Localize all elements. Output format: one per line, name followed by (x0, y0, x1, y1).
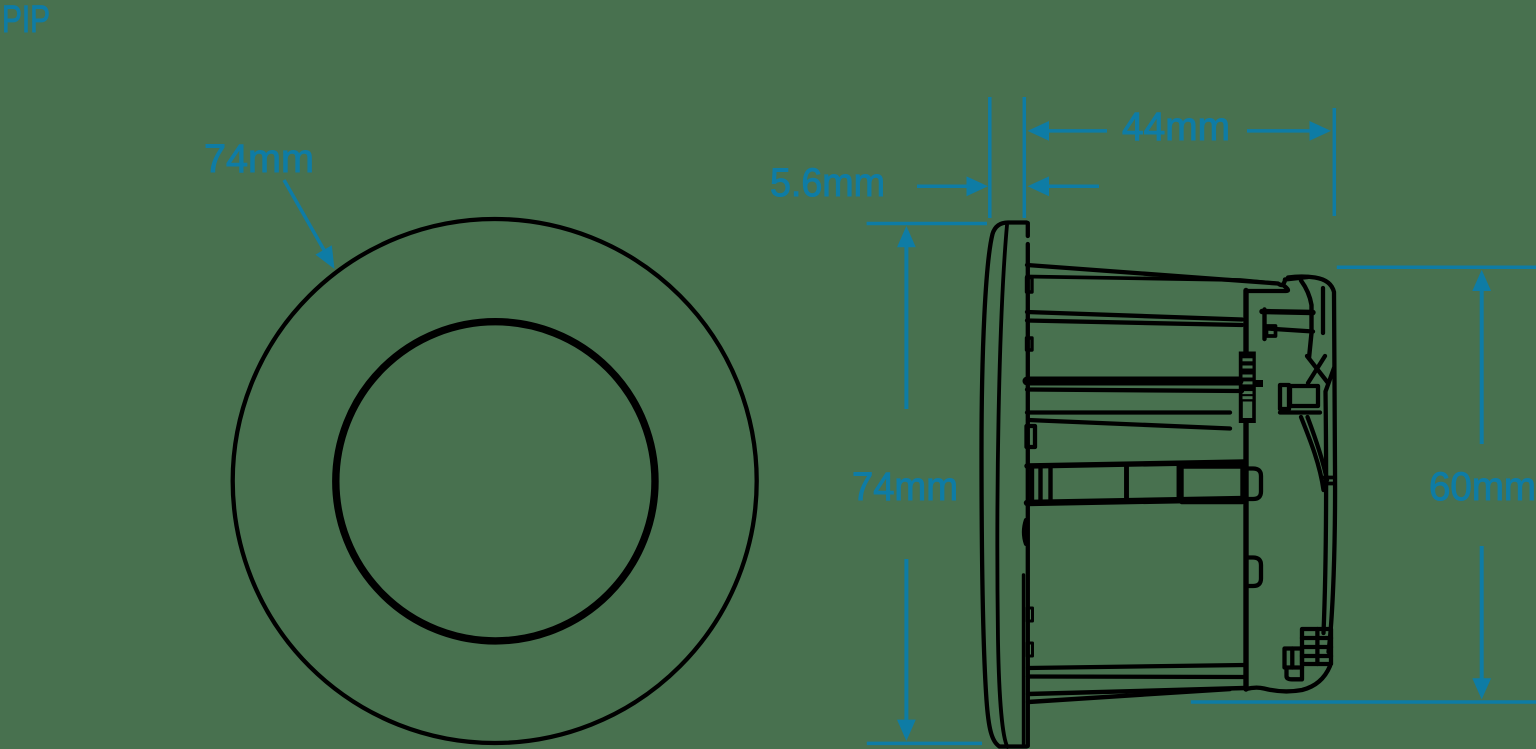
side view: small knob on front edge at 643 (1027, 643, 1033, 656)
extension line 74mm top (side) (867, 222, 987, 226)
side view: small knob on front edge at 608 (1027, 608, 1033, 621)
side view: terminal divider 1 (1124, 464, 1129, 500)
extension line 60mm top (1337, 265, 1536, 269)
side view: bezel back edge lower segment (1022, 575, 1025, 744)
leader arrow 74mm front (284, 180, 324, 250)
extension line 60mm bottom (1191, 700, 1536, 704)
side view: slant line 420-428 (1028, 420, 1230, 429)
side view: body front edge top stub (1026, 223, 1030, 236)
side view: ear flap curve (1301, 281, 1312, 359)
side view: body top edge lower (1027, 277, 1276, 284)
svg-text:74mm: 74mm (852, 465, 958, 509)
side view: clamp lower line (1280, 410, 1320, 414)
side view: basket line pair upper B (1027, 321, 1242, 326)
dimension 44mm left arrow (1048, 129, 1107, 133)
dimension 60mm vertical line upper (1480, 290, 1484, 444)
svg-text:74mm: 74mm (204, 137, 314, 181)
dimension 5.6mm right arrow pointing left (1048, 185, 1099, 189)
side view: basket line pair upper A (1027, 312, 1242, 320)
side view: bezel inner front line (997, 225, 1007, 747)
side view: bottom right bowl arc (1246, 666, 1330, 691)
side view: leg diagonal 2 (1308, 417, 1328, 480)
dimension 74mm vertical line lower (904, 559, 908, 720)
side view: clamp bottom ribbed block (1302, 629, 1331, 664)
side view: terminal slot 3 (1048, 466, 1052, 501)
extension line 44mm right (1333, 108, 1337, 216)
side view: clamp bottom hook (1287, 668, 1303, 680)
side view: bottom edge slant upper (1028, 688, 1245, 694)
side view: lower line B (1028, 674, 1245, 679)
extension line 74mm bottom (side) (867, 742, 982, 746)
side view: lower line A (1028, 665, 1245, 668)
dimension 60mm vertical line lower (1480, 546, 1484, 679)
dimension 44mm right arrow (1247, 129, 1310, 133)
side view: terminal strip top line (1027, 462, 1245, 466)
front view outer circle (233, 219, 757, 743)
svg-text:60mm: 60mm (1429, 465, 1536, 509)
side view: small box on front edge at 426 (1027, 426, 1036, 447)
side view: bezel outer contour (982, 223, 1027, 747)
side view: block right of screw (1256, 380, 1264, 387)
side view: notch line under top (1246, 285, 1288, 291)
side view: clamp block small left (1280, 385, 1289, 409)
side view: clamp bottom left box (1285, 649, 1303, 668)
side view: terminal strip bottom line (1027, 499, 1245, 503)
side view: body front edge (1026, 244, 1030, 746)
side view: inner profile upper vertical (1321, 288, 1325, 333)
side view: screw thread block (1239, 352, 1256, 424)
side view: right tab 2 (1248, 558, 1261, 587)
side view: right edge body vertical (1243, 291, 1248, 690)
side view: small knob on front edge mid (1027, 338, 1033, 350)
side view: right tab 1 (1248, 469, 1261, 500)
side view: leg diagonal 1 (1301, 417, 1324, 490)
side view: clamp X diagonal 1 (1307, 356, 1328, 383)
side view: back curve tick (1324, 478, 1335, 484)
front view inner circle (336, 322, 655, 641)
side view: clamp block (1290, 386, 1318, 406)
side view: terminal sub box (1182, 467, 1243, 503)
side view: small box under arm left end (1267, 326, 1276, 336)
side view: thick mid band (1027, 377, 1239, 386)
side view: top short line to ear (1285, 277, 1308, 280)
dimension 5.6mm left arrow pointing right (917, 185, 967, 189)
svg-text:44mm: 44mm (1122, 105, 1230, 149)
side view: outer back profile top (1288, 277, 1335, 653)
side view: small knob on front edge top (1027, 278, 1033, 293)
side view: bracket arm bottom line (1267, 329, 1313, 332)
side view: bracket arm top line (1262, 312, 1313, 313)
side view: bracket arm left end vertical (1262, 310, 1266, 340)
svg-text:PIP: PIP (2, 0, 50, 41)
dimension 74mm vertical line upper (904, 246, 908, 409)
side view: terminal divider 2 (1177, 464, 1182, 500)
side view: bottom edge slant lower (1028, 689, 1230, 702)
extension line bezel back / 44mm left (1023, 97, 1027, 218)
side view: terminal slot 1 (1030, 466, 1034, 501)
side view: clamp X diagonal 2 (1308, 356, 1325, 383)
svg-text:5.6mm: 5.6mm (770, 161, 885, 205)
side view: line under thick band (1027, 390, 1242, 392)
side view: body top edge upper (1027, 265, 1285, 285)
side view: inner back line (1324, 368, 1335, 633)
extension line bezel front (5.6mm left) (988, 97, 992, 218)
side view: small bump left at 520 (1024, 520, 1026, 544)
side view: terminal slot 2 (1038, 466, 1042, 501)
side view: line at 412 (1027, 410, 1230, 414)
